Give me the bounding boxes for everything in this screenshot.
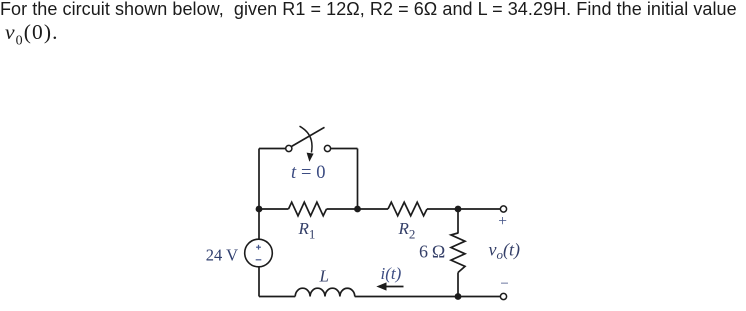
inductor L coil	[295, 288, 355, 296]
wire main: R2 to node B	[427, 208, 458, 210]
switch SW1 right contact circle	[324, 145, 330, 151]
wire left vertical (top: node A to source)	[258, 149, 260, 240]
wire bottom: inductor to bottom node	[355, 296, 458, 298]
label L	[319, 267, 329, 286]
resistor 6ohm vertical zigzag	[451, 233, 465, 273]
wire main: R1 to R2	[327, 208, 389, 210]
label R1	[298, 219, 316, 241]
wire bottom node to - terminal	[458, 296, 500, 298]
svg-text:24 V: 24 V	[206, 245, 238, 264]
label - output polarity	[500, 276, 508, 292]
voltage source minus sign	[256, 259, 262, 261]
switch SW1 left contact circle	[286, 145, 292, 151]
svg-text:6: 6	[419, 241, 428, 261]
label 6 ohm	[419, 241, 445, 261]
wire top-left horizontal	[259, 148, 286, 150]
wire node B to + terminal	[458, 208, 500, 210]
svg-text:L: L	[319, 267, 329, 286]
voltage source VS 24V circle	[245, 239, 273, 267]
wire switch right vertical	[357, 149, 359, 210]
svg-text:t = 0: t = 0	[291, 163, 326, 183]
svg-text:R1: R1	[298, 219, 316, 241]
wire left vertical (source to bottom wire)	[258, 267, 260, 297]
voltage source plus sign	[256, 245, 261, 250]
svg-text:Ω: Ω	[432, 241, 445, 261]
wire node B down to 6ohm resistor	[457, 209, 459, 234]
junction node bottom (6ohm bottom)	[455, 293, 462, 300]
wire top-right horizontal	[331, 148, 358, 150]
resistor R1 zigzag	[289, 202, 327, 216]
switch SW1 blade	[292, 127, 325, 146]
label + output polarity	[498, 213, 507, 230]
output terminal - (open circle bottom)	[500, 293, 506, 299]
switch SW1 closing arc arrow	[300, 126, 314, 162]
wire 6ohm resistor to bottom node	[457, 273, 459, 297]
junction node B (R2 right, 6ohm top)	[455, 206, 462, 213]
label i(t)	[381, 264, 402, 283]
svg-text:vo(t): vo(t)	[489, 239, 521, 262]
svg-text:+: +	[498, 213, 507, 230]
svg-text:R2: R2	[398, 219, 416, 241]
junction node left (R1 left)	[256, 206, 263, 213]
resistor R2 zigzag	[388, 202, 427, 216]
label R2	[398, 219, 416, 241]
output terminal + (open circle top)	[500, 206, 506, 212]
label t = 0	[291, 163, 326, 183]
svg-text:−: −	[500, 276, 508, 292]
label 24 V	[206, 245, 238, 264]
junction node middle (R1-R2, switch)	[354, 206, 361, 213]
current arrow i(t)	[376, 282, 403, 290]
label vo(t)	[489, 239, 521, 262]
svg-text:i(t): i(t)	[381, 264, 402, 283]
wire bottom: source to inductor	[259, 296, 295, 298]
wire main: left node to R1	[259, 208, 289, 210]
